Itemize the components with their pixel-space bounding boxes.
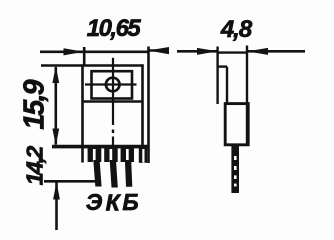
side back (left) edge [216, 47, 218, 105]
side top edge [217, 51, 248, 53]
extension tick left of 10,65 [83, 47, 86, 65]
arrow 14,2 up [53, 182, 60, 200]
slit leg 3 [126, 149, 129, 162]
side view [217, 46, 249, 146]
svg-text:10,65: 10,65 [87, 15, 142, 42]
svg-text:4,8: 4,8 [220, 16, 253, 43]
package top edge with 15,9 extension [41, 64, 144, 67]
svg-text:Э: Э [86, 189, 103, 215]
vertical center line [112, 58, 114, 125]
side front (right) edge [246, 46, 248, 146]
slit right stub [142, 149, 144, 163]
crosshair horizontal [85, 83, 137, 85]
mounting hole circle [106, 78, 120, 92]
arrow 4,8 left [197, 48, 218, 55]
pins [93, 160, 132, 188]
arrow 4,8 right [247, 48, 268, 55]
side lead [231, 145, 239, 193]
shoulder leg 3 [121, 147, 134, 162]
arrow 15,9 down [52, 129, 59, 146]
arrowheads [52, 47, 268, 200]
dimension line 10,65 left segment [40, 50, 84, 53]
svg-text:Б: Б [122, 189, 138, 215]
body bottom bar with 15,9 extension [52, 145, 149, 149]
tab front line [226, 67, 228, 104]
svg-text:К: К [106, 190, 122, 216]
svg-text:15,9: 15,9 [19, 79, 51, 129]
slit leg 1 [93, 149, 96, 162]
slit leg 2 [110, 149, 113, 162]
pin К [110, 160, 118, 188]
pin Э [93, 160, 101, 187]
tab/body divider [83, 100, 143, 103]
side body rectangle [225, 104, 248, 145]
shoulder leg 1 [88, 147, 102, 162]
svg-text:14,2: 14,2 [22, 146, 48, 186]
package left edge [81, 64, 84, 162]
arrow 10,65 right [148, 47, 169, 54]
dimension line 10,65 middle segment [84, 50, 148, 53]
tab step [218, 65, 227, 67]
extension line right of 10,65 [147, 47, 150, 164]
package right edge [141, 64, 144, 163]
pin Б [125, 160, 132, 187]
dimension line 10,65 / 4,8 shared right run [149, 49, 170, 52]
legs: shoulders [88, 147, 148, 163]
dimension line 15,9 vertical [54, 67, 57, 145]
hole inner rectangle [92, 71, 133, 98]
extension line at pin tips for 14,2 [44, 180, 98, 183]
shoulder leg 2 [104, 147, 118, 162]
dimension line 14,2 vertical [55, 183, 58, 231]
arrow 15,9 up [52, 66, 59, 83]
stub at right edge [139, 147, 147, 163]
arrow 10,65 left [64, 48, 85, 55]
